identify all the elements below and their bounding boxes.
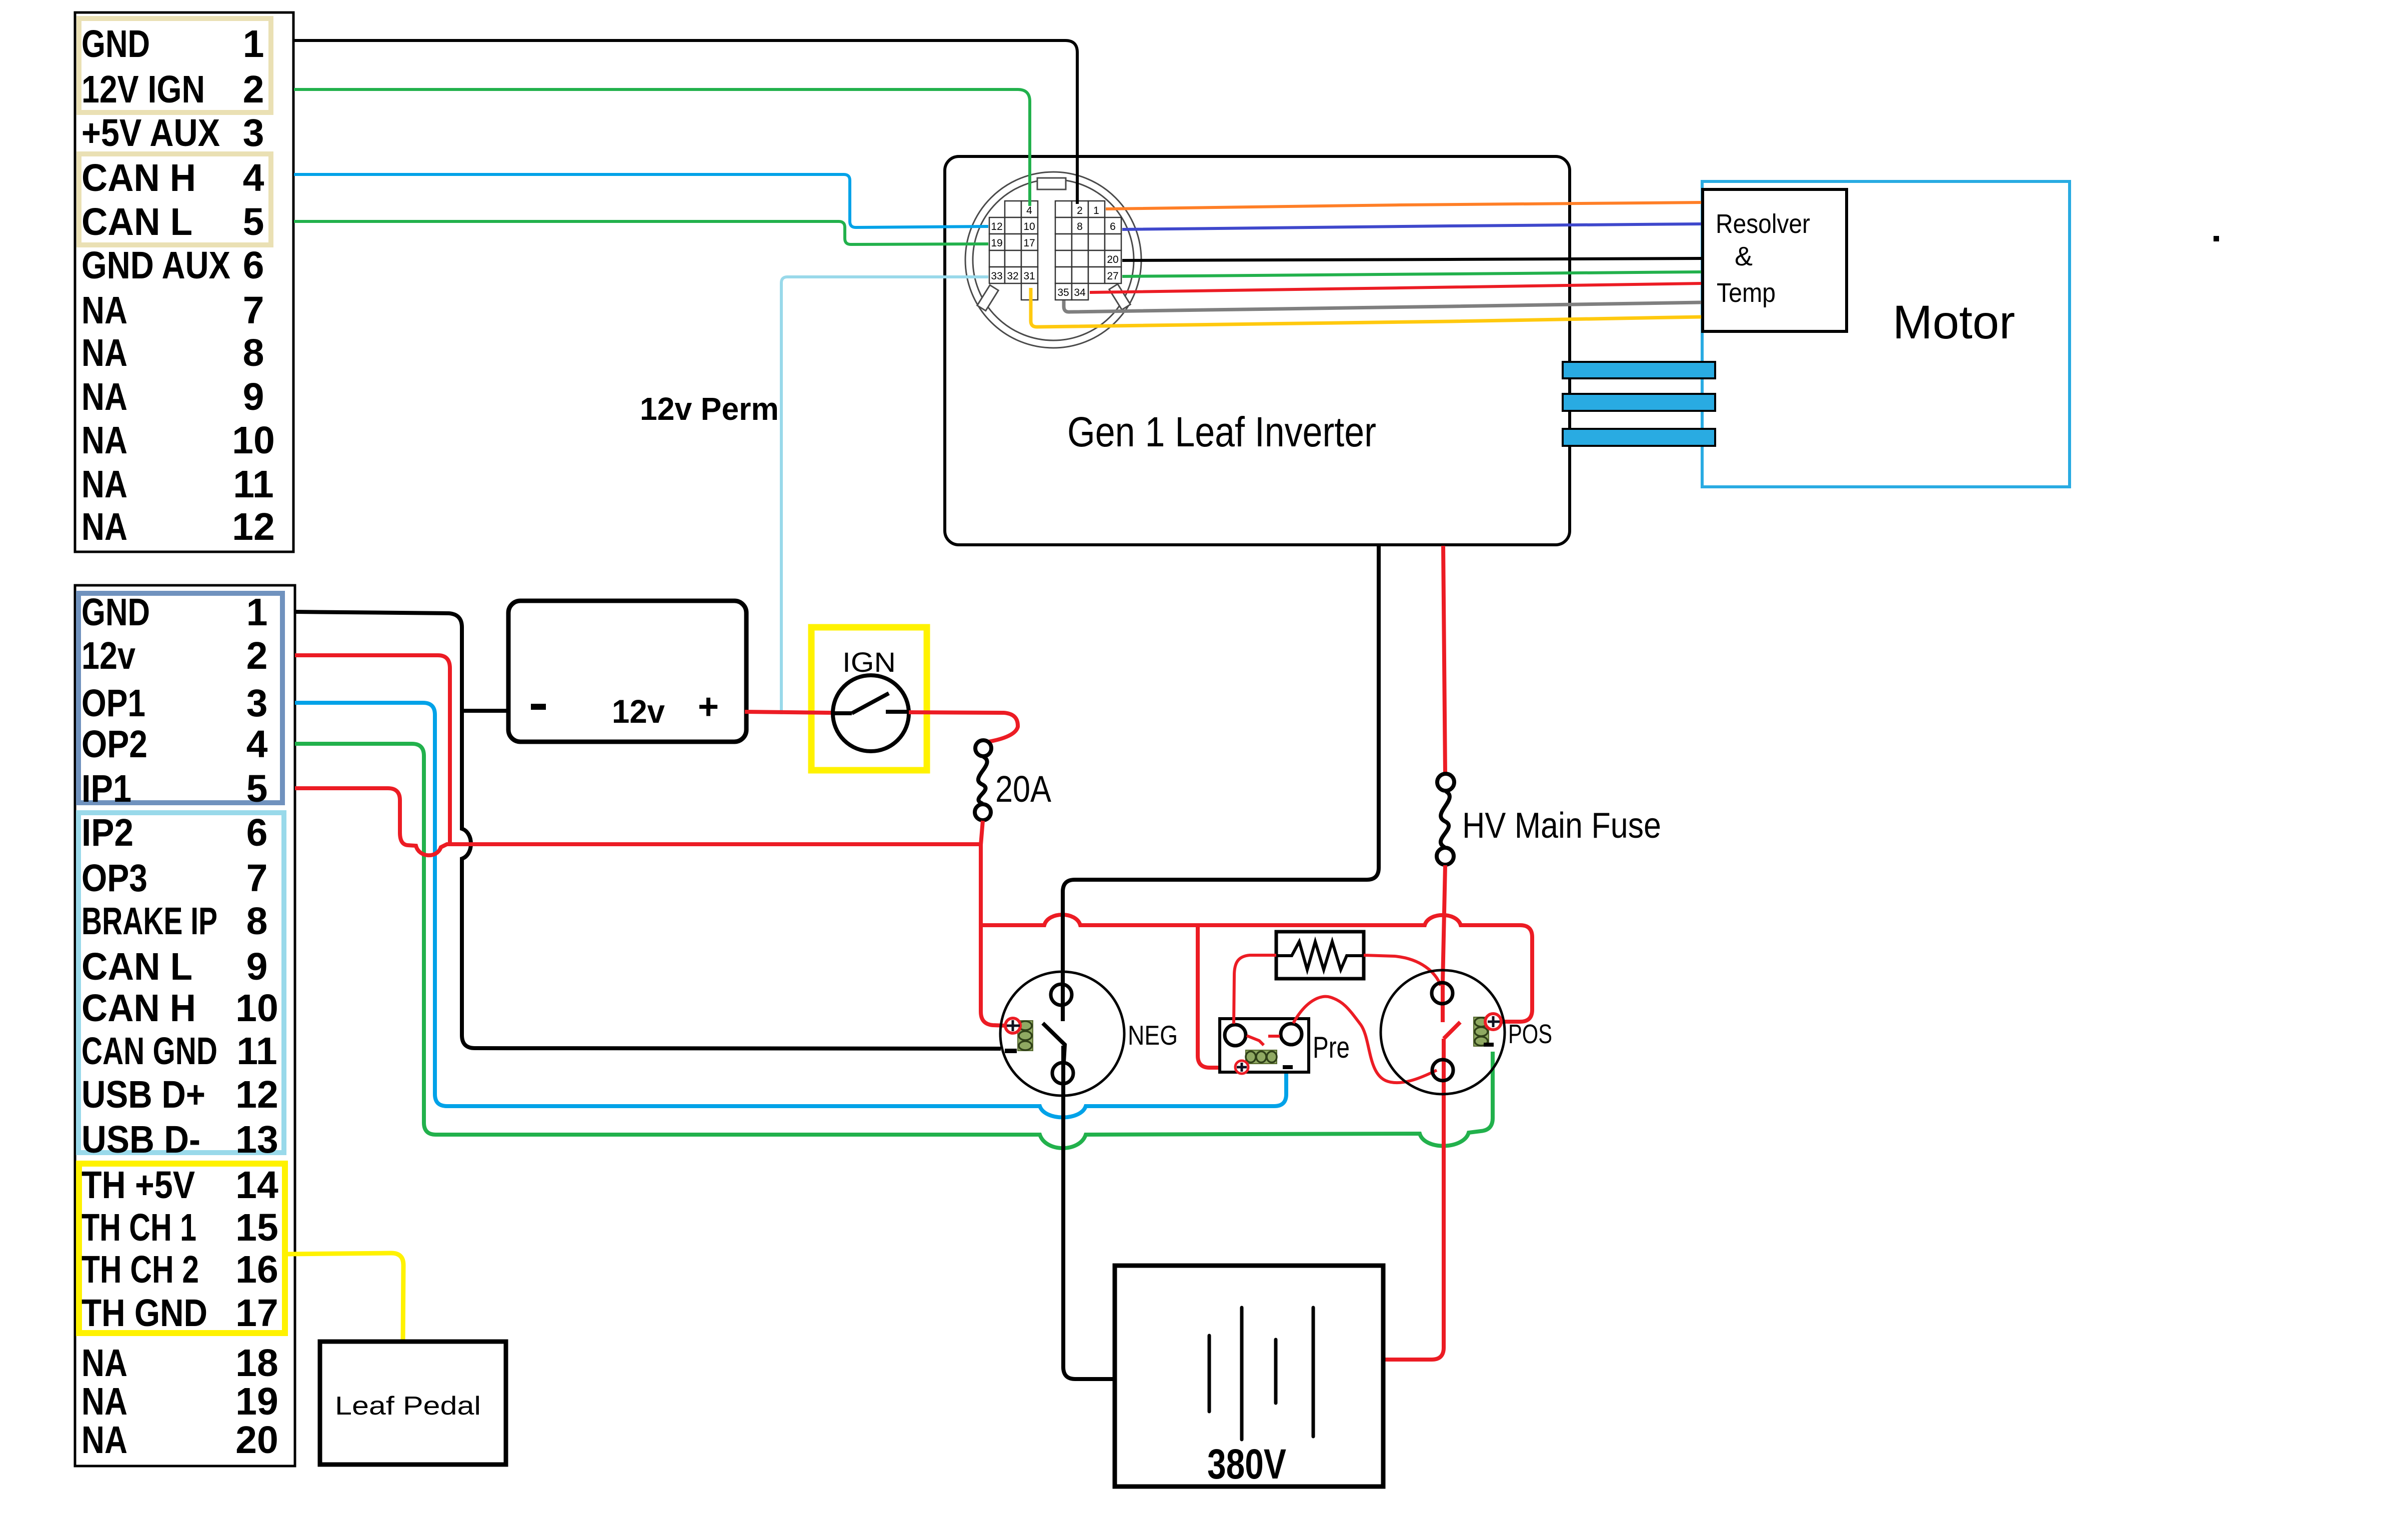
svg-text:NA: NA [81,1342,127,1385]
contactor Pre coil [1246,1050,1277,1064]
J2 pin row OP3 7 [81,857,267,900]
svg-text:9: 9 [243,375,264,418]
wire J1 pin1 GND (black) to connector cell 2 [294,40,1077,204]
J2 pin row IP1 5 [81,767,267,810]
svg-text:Resolver: Resolver [1716,209,1810,239]
fuse HV main bottom terminal [1437,848,1454,865]
J1 pin row NA 9 [81,375,264,418]
fuse HV main top terminal [1437,774,1454,791]
Leaf Pedal box [320,1342,506,1465]
svg-text:6: 6 [1110,221,1116,232]
svg-text:17: 17 [235,1292,278,1335]
Motor box [1702,181,2070,487]
svg-text:1: 1 [1093,205,1099,216]
wire resolver yellow (cell 31) [1031,288,1701,327]
svg-text:33: 33 [991,270,1002,282]
svg-text:16: 16 [235,1248,278,1291]
svg-text:TH CH 1: TH CH 1 [81,1206,196,1249]
contactor NEG bottom terminal [1052,1063,1073,1084]
fuse 20A bottom terminal [975,804,991,820]
J2 pin row 12v 2 [81,634,267,677]
svg-text:10: 10 [232,419,275,462]
svg-text:NA: NA [81,1419,127,1462]
wire IGN to 20A fuse (red) [909,712,1018,742]
svg-text:OP3: OP3 [81,857,147,900]
motor phase bar W [1563,429,1715,446]
svg-text:NA: NA [81,289,127,332]
motor phase bar U [1563,362,1715,378]
J1 pin row CAN H 4 [81,156,264,199]
connector J1 (inverter signal plug) box [75,12,293,552]
contactor NEG coil - terminal [1005,1049,1017,1053]
svg-text:CAN L: CAN L [81,945,192,988]
svg-text:USB D+: USB D+ [81,1073,205,1116]
connector right pin grid [1055,201,1121,300]
svg-text:20: 20 [235,1419,278,1462]
wire 12v Perm (light blue) from connector cell 33 [781,277,988,714]
wire resolver gray (cell 35) [1064,300,1701,312]
contactor Pre switch blade (red) [1247,1036,1280,1045]
svg-text:13: 13 [235,1118,278,1161]
wire J1 pin4 CAN H (blue) to connector cell 12 [294,174,988,227]
svg-text:12: 12 [991,221,1002,232]
svg-text:12v: 12v [81,634,135,677]
connector key mark left [977,285,998,310]
svg-text:NA: NA [81,463,127,506]
svg-text:NA: NA [81,1380,127,1423]
svg-text:34: 34 [1074,287,1086,298]
svg-text:IP2: IP2 [81,811,133,854]
connector left pin grid [989,201,1038,300]
wire inverter HV negative (black) to NEG contactor [1043,545,1379,1379]
svg-text:Motor: Motor [1893,296,2015,349]
svg-text:35: 35 [1057,287,1069,298]
J2 highlight box pins 1-5 [78,593,282,803]
connector top notch [1037,178,1066,189]
J1 pin row 12V IGN 2 [81,68,264,111]
wire resistor left to Pre terminal (red) [1234,955,1276,1024]
wire Pre right terminal to POS bottom terminal (red S-curve) [1293,997,1437,1083]
J2 pin row CAN H 10 [81,987,278,1030]
svg-text:2: 2 [1077,205,1083,216]
svg-text:Pre: Pre [1313,1031,1350,1064]
svg-text:31: 31 [1023,270,1035,282]
wire resolver black (cell 20) [1122,258,1701,260]
wire J2 pin4 OP2 (green) to POS coil - [295,744,1493,1148]
J2 pin row OP1 3 [81,682,267,725]
connector right grid pin numbers [1057,205,1118,298]
svg-text:POS: POS [1508,1019,1552,1049]
J2 pin row NA 20 [81,1419,278,1462]
svg-text:TH CH 2: TH CH 2 [81,1248,199,1291]
contactor POS bottom terminal [1432,1060,1453,1081]
J2 highlight box pins 6-13 [78,813,284,1153]
J1 pin row GND 1 [81,22,264,65]
contactor Pre body box [1220,1019,1309,1072]
fuse 20A element [978,757,987,804]
wire inverter HV positive (red) to HV fuse [1443,546,1445,774]
svg-text:Leaf Pedal: Leaf Pedal [335,1392,481,1421]
battery minus terminal label [531,704,546,710]
wire battery minus to J2 pin1 (black) [460,709,507,713]
svg-text:OP2: OP2 [81,723,147,766]
J2 pin row BRAKE IP 8 [81,900,267,943]
svg-text:5: 5 [246,767,268,810]
Resolver & Temp box [1703,189,1847,331]
J1 pin row NA 12 [81,505,275,548]
wire resolver red (cell 34) [1090,283,1701,292]
svg-text:OP1: OP1 [81,682,145,725]
contactor NEG body circle [1000,972,1124,1096]
contactor Pre left terminal [1225,1025,1246,1046]
svg-text:12: 12 [232,505,275,548]
precharge resistor zigzag element [1278,942,1362,970]
svg-text:27: 27 [1107,270,1118,282]
wire battery+ to IGN (red) [745,712,833,713]
svg-text:3: 3 [243,111,264,154]
svg-text:6: 6 [246,811,268,854]
svg-text:GND: GND [81,22,150,65]
svg-text:9: 9 [246,945,268,988]
J2 pin row TH +5V 14 [81,1164,278,1207]
Gen 1 Leaf Inverter box [945,156,1570,545]
J2 highlight box pins 14-17 [79,1164,285,1333]
J2 pin row CAN L 9 [81,945,267,988]
wire red rail junction to NEG coil + [981,925,1006,1026]
J2 pin row TH CH 1 15 [81,1206,278,1249]
svg-text:10: 10 [235,987,278,1030]
battery 380V cell plate long 1 [1240,1308,1244,1440]
J2 pin row IP2 6 [81,811,267,854]
J1 pin row NA 10 [81,419,275,462]
svg-text:Gen 1 Leaf Inverter: Gen 1 Leaf Inverter [1067,408,1376,455]
svg-text:NEG: NEG [1128,1020,1178,1051]
svg-text:CAN GND: CAN GND [81,1030,217,1073]
svg-text:CAN L: CAN L [81,200,192,243]
svg-text:15: 15 [235,1206,278,1249]
svg-text:TH +5V: TH +5V [81,1164,195,1207]
motor phase bar V [1563,394,1715,411]
wire J1 pin2 12V IGN (green) to connector cell 4 [294,89,1030,206]
J2 pin row TH GND 17 [81,1292,278,1335]
contactor POS top terminal [1432,983,1453,1004]
svg-text:4: 4 [1026,205,1032,216]
svg-text:IP1: IP1 [81,767,131,810]
wire red rail horizontal to POS coil + [981,915,1532,1022]
svg-text:Temp: Temp [1717,278,1776,308]
wire J2 pin1 GND (black) to NEG contactor coil - [295,612,1001,1049]
wire resolver dark blue (cell 6) [1122,224,1701,229]
wire J2 pin5 IP1 (red) to fuse junction [295,788,981,855]
battery 12v box [508,601,746,742]
contactor POS coil + terminal [1485,1014,1501,1030]
IGN switch contacts [833,693,908,713]
svg-text:12v Perm: 12v Perm [640,391,779,427]
wire resolver orange (cell 1) [1106,202,1701,209]
svg-text:18: 18 [235,1342,278,1385]
J2 pin row USB D- 13 [81,1118,278,1161]
svg-text:NA: NA [81,505,127,548]
contactor NEG coil [1018,1021,1033,1051]
svg-text:2: 2 [246,634,268,677]
svg-text:19: 19 [991,237,1002,249]
J2 pin row OP2 4 [81,723,268,766]
fuse 20A top terminal [975,740,991,756]
contactor POS coil [1474,1017,1489,1046]
J2 pin row NA 18 [81,1342,278,1385]
svg-text:12V IGN: 12V IGN [81,68,205,111]
svg-text:11: 11 [233,463,273,506]
contactor Pre coil + terminal [1235,1061,1248,1074]
contactor POS body circle [1381,970,1505,1094]
battery 380V cell plate short 2 [1274,1340,1278,1403]
svg-text:BRAKE IP: BRAKE IP [81,900,217,943]
wire J1 pin5 CAN L (green) to connector cell 19 [294,221,988,244]
svg-text:8: 8 [1077,221,1083,232]
IGN switch circle [833,675,909,751]
precharge resistor box [1276,932,1364,979]
svg-text:7: 7 [243,289,264,332]
svg-text:IGN: IGN [842,646,896,678]
svg-text:USB D-: USB D- [81,1118,200,1161]
svg-text:CAN H: CAN H [81,156,196,199]
svg-text:CAN H: CAN H [81,987,196,1030]
svg-text:NA: NA [81,419,127,462]
svg-text:TH GND: TH GND [81,1292,207,1335]
svg-text:8: 8 [243,331,264,374]
svg-text:1: 1 [246,591,268,634]
svg-text:3: 3 [246,682,268,725]
J2 pin row GND 1 [81,591,267,634]
svg-text:14: 14 [235,1164,278,1207]
fuse HV main element [1441,791,1450,847]
J1 pin row NA 7 [81,289,264,332]
svg-text:NA: NA [81,375,127,418]
svg-text:+: + [698,687,719,727]
J2 pin row NA 19 [81,1380,278,1423]
IGN switch highlight box [811,627,927,770]
J1 highlight box pins 1-2 [79,18,271,112]
wire red rail branch to Pre coil + [1198,925,1235,1068]
J1 highlight box pins 4-5 [79,154,271,245]
wire J2 pin3 OP1 (blue) to Pre coil - [295,703,1286,1118]
svg-text:20: 20 [1107,254,1118,265]
svg-text:12: 12 [235,1073,278,1116]
svg-text:20A: 20A [995,768,1052,810]
inverter round connector outer shell [965,172,1141,348]
J2 pin row TH CH 2 16 [81,1248,278,1291]
J1 pin row NA 8 [81,331,264,374]
wire resolver green (cell 27) [1122,272,1701,276]
svg-text:4: 4 [246,723,268,766]
svg-text:HV Main Fuse: HV Main Fuse [1462,806,1661,846]
svg-text:5: 5 [243,200,264,243]
svg-text:10: 10 [1023,221,1035,232]
J1 pin row NA 11 [81,463,274,506]
svg-text:&: & [1735,241,1753,271]
contactor POS coil - terminal [1484,1043,1494,1047]
J1 pin row CAN L 5 [81,200,264,243]
svg-text:GND: GND [81,591,150,634]
battery 380V cell plate short 1 [1208,1336,1211,1412]
J2 pin row USB D+ 12 [81,1073,278,1116]
svg-text:4: 4 [243,156,264,199]
battery 380V box [1115,1266,1383,1487]
svg-text:19: 19 [235,1380,278,1423]
contactor NEG top terminal [1051,984,1072,1005]
svg-text:6: 6 [243,244,264,287]
stray ink dot [2214,236,2219,241]
svg-text:11: 11 [236,1030,277,1073]
wire resistor right to POS top terminal (red) [1364,955,1441,986]
wire HV fuse to POS contactor (red) [1385,865,1460,1360]
connector J2 (VCU plug) box [75,585,295,1466]
svg-text:17: 17 [1023,237,1035,249]
connector key mark right [1109,284,1130,309]
svg-text:380V: 380V [1207,1441,1286,1488]
svg-text:+5V AUX: +5V AUX [81,111,220,154]
svg-text:8: 8 [246,900,268,943]
svg-text:7: 7 [246,857,268,900]
wire throttle (yellow) J2 box to Leaf Pedal [287,1253,403,1342]
contactor Pre right terminal [1281,1024,1302,1045]
svg-text:1: 1 [243,22,264,65]
battery 380V cell plate long 2 [1312,1308,1315,1437]
svg-text:GND AUX: GND AUX [81,244,230,287]
contactor NEG coil + terminal [1005,1018,1020,1033]
wire 20A fuse down to junction (red) [981,821,983,925]
svg-text:NA: NA [81,331,127,374]
wire J2 pin2 12v (red) [295,655,450,843]
svg-text:32: 32 [1007,270,1018,282]
svg-text:12v: 12v [612,693,665,730]
J2 pin row CAN GND 11 [81,1030,277,1073]
J1 pin row +5V AUX 3 [81,111,264,154]
J1 pin row GND AUX 6 [81,244,264,287]
connector left grid pin numbers [991,205,1035,282]
svg-text:2: 2 [243,68,264,111]
contactor Pre coil - terminal [1283,1065,1293,1069]
